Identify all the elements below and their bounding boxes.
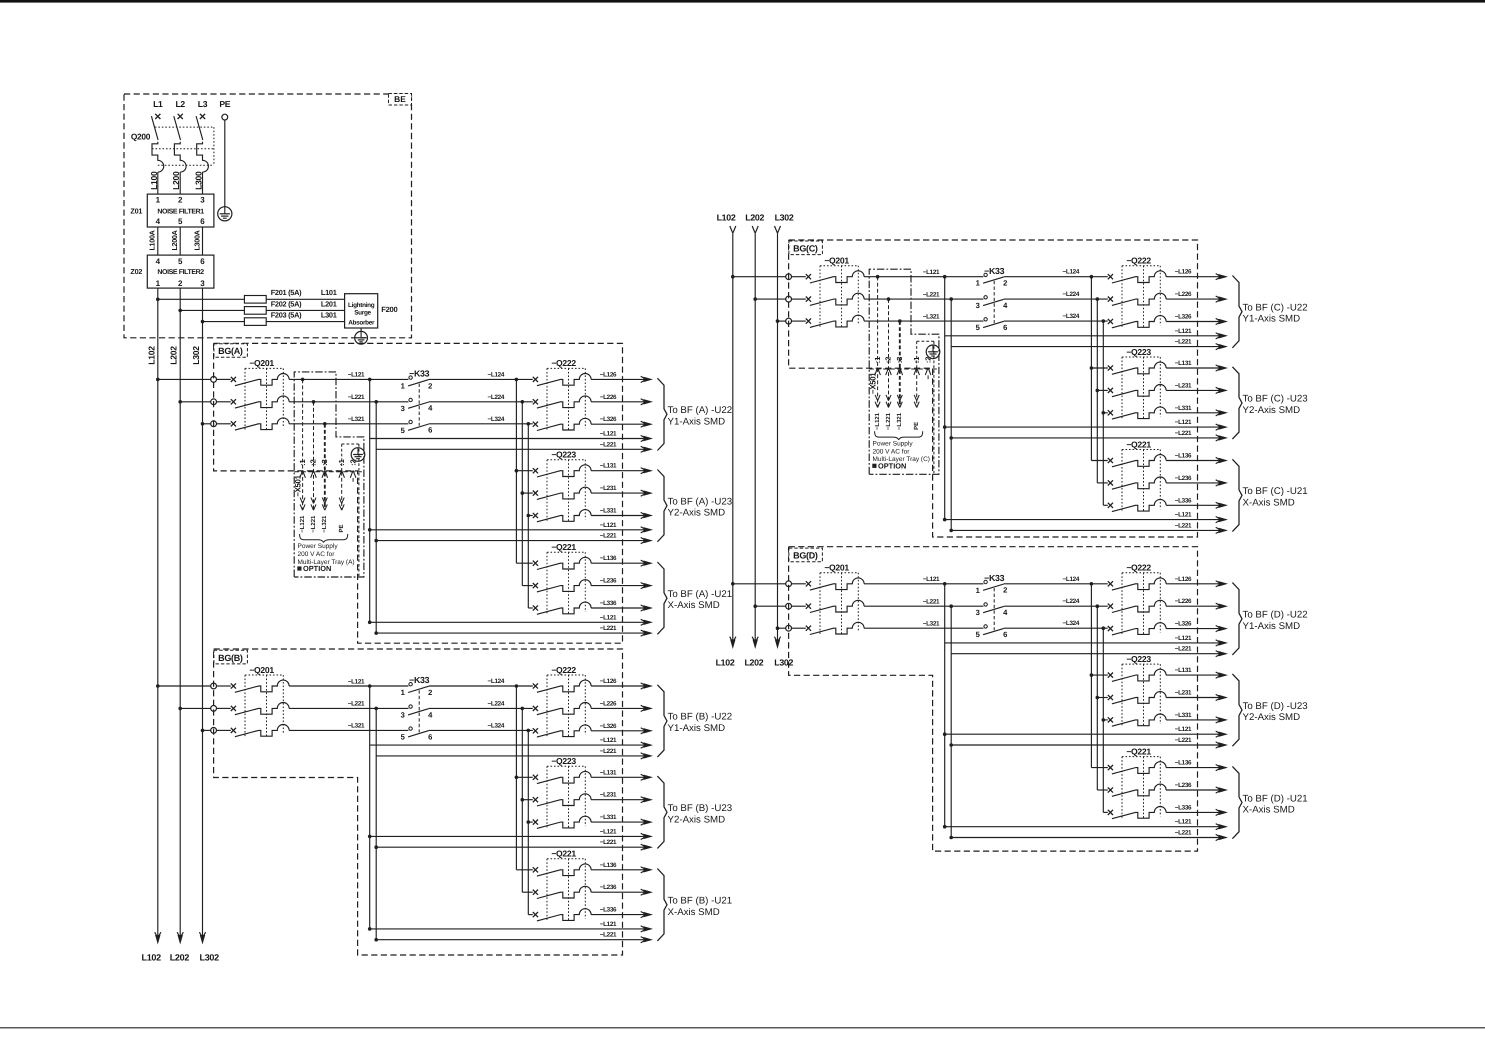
wire −L224	[429, 700, 533, 708]
breaker Q201 BG(A)	[231, 358, 289, 431]
wire	[791, 320, 806, 322]
wire F200 to ground	[360, 328, 362, 331]
svg-text:−L224: −L224	[1063, 598, 1080, 605]
svg-text:Surge: Surge	[354, 309, 371, 316]
svg-text:−L321: −L321	[923, 313, 940, 320]
contactor K33	[401, 369, 433, 435]
power supply option box A	[294, 372, 364, 577]
svg-text:−L136: −L136	[600, 862, 617, 869]
svg-text:Y1-Axis SMD: Y1-Axis SMD	[668, 723, 726, 734]
svg-text:X-Axis SMD: X-Axis SMD	[1243, 498, 1295, 509]
wire −L226	[591, 394, 653, 405]
svg-text:−L126: −L126	[1175, 576, 1192, 583]
noise filter Z01	[130, 194, 213, 227]
svg-text:−L121: −L121	[874, 412, 881, 430]
breaker Q221 BG(D)	[1108, 746, 1166, 819]
svg-text:X-Axis SMD: X-Axis SMD	[668, 907, 720, 918]
wire bus L302 left	[202, 288, 204, 935]
wire −L131	[591, 769, 653, 780]
svg-text:L201: L201	[321, 299, 337, 308]
svg-text::2: :2	[348, 459, 357, 466]
ground option A	[351, 448, 365, 462]
brace output group U22	[657, 378, 667, 450]
wire to fuse F202	[180, 309, 244, 311]
svg-text:To BF (A) -U23: To BF (A) -U23	[668, 496, 733, 507]
svg-text:−Q221: −Q221	[1126, 746, 1151, 756]
terminal input 1	[211, 683, 217, 689]
svg-text:L2: L2	[175, 99, 185, 109]
wire −L124	[1004, 269, 1108, 277]
svg-text:L102: L102	[716, 657, 735, 667]
wire -L121 output	[943, 726, 1228, 737]
wire L301	[266, 321, 344, 323]
wire −L131	[591, 463, 653, 474]
wire L100A	[157, 227, 159, 255]
svg-text:−L236: −L236	[1175, 475, 1192, 482]
svg-text:L300: L300	[194, 171, 204, 190]
svg-text:−L226: −L226	[600, 700, 617, 707]
svg-text:PE: PE	[338, 524, 345, 532]
wire feeder phase 2 to Q223/Q221	[1096, 604, 1108, 790]
brace output group U23	[1232, 674, 1242, 746]
breaker Q222 BG(A)	[533, 358, 591, 431]
svg-text:−L121: −L121	[600, 431, 617, 438]
wire	[216, 423, 231, 425]
wire	[216, 729, 231, 731]
wire bus input phase 3	[201, 422, 211, 426]
breaker Q223 BG(C)	[1108, 347, 1166, 420]
svg-text:F202 (5A): F202 (5A)	[271, 299, 302, 308]
wire −L131	[1166, 360, 1228, 371]
svg-text:−L124: −L124	[488, 371, 505, 378]
svg-text:1: 1	[156, 195, 161, 204]
svg-text:−X501: −X501	[294, 474, 303, 496]
svg-text:BG(C): BG(C)	[793, 244, 818, 254]
wire −L221	[864, 291, 983, 299]
svg-text:−L121: −L121	[1175, 328, 1192, 335]
wire	[216, 378, 231, 380]
wire bus input phase 1	[731, 275, 786, 279]
wire -L121 output	[368, 522, 653, 533]
wire tap -L321 to X501:3	[896, 319, 903, 430]
svg-text:−L326: −L326	[1175, 621, 1192, 628]
wire -L121 bypass	[943, 275, 947, 520]
wire −L331	[591, 508, 653, 519]
svg-text:Y2-Axis SMD: Y2-Axis SMD	[1243, 712, 1301, 723]
svg-text:−L221: −L221	[923, 291, 940, 298]
svg-text:−Q223: −Q223	[1126, 654, 1151, 664]
svg-text:−L321: −L321	[923, 621, 940, 628]
terminal input 1	[211, 377, 217, 383]
svg-text:−L236: −L236	[1175, 782, 1192, 789]
svg-text:−L221: −L221	[600, 533, 617, 540]
svg-text:−Q201: −Q201	[249, 358, 274, 368]
breaker Q223 BG(B)	[533, 756, 591, 829]
wire −L224	[429, 394, 533, 402]
wire -L221 output	[374, 625, 653, 636]
svg-text:−L336: −L336	[1175, 497, 1192, 504]
brace output group U21	[657, 869, 667, 941]
svg-text:To BF (A) -U21: To BF (A) -U21	[668, 589, 733, 600]
wire −L236	[1166, 782, 1228, 793]
wire −L136	[1166, 760, 1228, 771]
svg-text:−Q201: −Q201	[824, 563, 849, 573]
svg-text:−L221: −L221	[1175, 830, 1192, 837]
svg-text:−L121: −L121	[1175, 635, 1192, 642]
svg-text:2: 2	[428, 688, 432, 697]
wire -L121 output	[368, 921, 653, 932]
svg-text:−L121: −L121	[1175, 726, 1192, 733]
wire −L221	[289, 394, 408, 402]
svg-text:3: 3	[200, 195, 205, 204]
wire −L121	[289, 372, 408, 380]
wire bus right L202	[754, 233, 756, 640]
svg-text:L301: L301	[321, 311, 337, 320]
wire	[791, 605, 806, 607]
label To BF (B) U22	[668, 712, 733, 734]
label To BF (A) U21	[668, 589, 733, 611]
wire tap -L121 to X501:1	[874, 275, 881, 430]
svg-text:−L121: −L121	[1175, 419, 1192, 426]
label To BF (D) U21	[1243, 793, 1308, 815]
svg-text:L102: L102	[717, 212, 736, 222]
svg-text:−L136: −L136	[1175, 453, 1192, 460]
wire tap -L221 to X501:2	[310, 400, 317, 533]
wire -L121 output	[945, 328, 1228, 339]
label To BF (C) U22	[1243, 302, 1308, 324]
wire tap -L121 to X501:1	[299, 378, 306, 533]
wire bus right L302	[777, 233, 779, 640]
wire bus input phase 1	[731, 582, 786, 586]
svg-text:−L136: −L136	[600, 555, 617, 562]
svg-text:L102: L102	[142, 952, 162, 962]
svg-text:Lightning: Lightning	[348, 302, 375, 309]
arrow bus L202 bottom	[178, 935, 183, 945]
svg-text:−L121: −L121	[600, 522, 617, 529]
svg-text:To BF (D) -U23: To BF (D) -U23	[1243, 701, 1308, 712]
wire -L121 output	[368, 614, 653, 625]
svg-text:−L131: −L131	[1175, 360, 1192, 367]
connector X501	[294, 459, 364, 496]
svg-text:To BF (C) -U23: To BF (C) -U23	[1243, 394, 1308, 405]
svg-text:Absorber: Absorber	[348, 320, 375, 327]
wire −L226	[1166, 291, 1228, 302]
breaker Q223 BG(A)	[533, 450, 591, 523]
svg-text:3: 3	[401, 404, 405, 413]
terminal input 3	[786, 625, 792, 631]
svg-text:−L121: −L121	[348, 678, 365, 685]
wire feeder phase 1 to Q223/Q221	[515, 684, 533, 870]
svg-text:2: 2	[428, 381, 432, 390]
svg-text:L100: L100	[149, 171, 159, 190]
svg-text:L302: L302	[774, 657, 793, 667]
svg-text:Q200: Q200	[131, 131, 151, 141]
svg-text:Y1-Axis SMD: Y1-Axis SMD	[1243, 314, 1301, 325]
svg-text:−Q222: −Q222	[1126, 563, 1151, 573]
svg-text:L302: L302	[191, 346, 201, 365]
svg-text:L202: L202	[170, 952, 190, 962]
svg-text:−L121: −L121	[1175, 512, 1192, 519]
wire −L321	[864, 313, 983, 321]
wire -L221 output	[376, 748, 653, 759]
terminal input 3	[211, 421, 217, 427]
contactor K33	[976, 266, 1008, 332]
wire −L321	[289, 416, 408, 424]
svg-text:To BF (C) -U21: To BF (C) -U21	[1243, 486, 1308, 497]
svg-text:−L326: −L326	[1175, 314, 1192, 321]
svg-text:2: 2	[178, 279, 183, 288]
svg-text:BG(D): BG(D)	[793, 551, 818, 561]
svg-text:−L121: −L121	[600, 828, 617, 835]
breaker Q222 BG(D)	[1108, 563, 1166, 636]
svg-text:F200: F200	[381, 305, 397, 314]
brace output group U23	[657, 776, 667, 848]
svg-text:−L221: −L221	[600, 625, 617, 632]
svg-text:−L236: −L236	[600, 578, 617, 585]
svg-text:−L121: −L121	[600, 737, 617, 744]
wire bus input phase 2	[753, 604, 785, 608]
svg-text:Y1-Axis SMD: Y1-Axis SMD	[668, 416, 726, 427]
svg-text:−L121: −L121	[299, 515, 306, 533]
svg-text:To BF (D) -U21: To BF (D) -U21	[1243, 793, 1308, 804]
label To BF (D) U22	[1243, 610, 1308, 632]
breaker Q200	[131, 114, 214, 194]
wire	[791, 627, 806, 629]
brace output group U22	[1232, 583, 1242, 655]
svg-text:−Q223: −Q223	[551, 450, 576, 460]
contactor K33	[401, 675, 433, 741]
svg-text:NOISE FILTER1: NOISE FILTER1	[157, 208, 204, 215]
wire -L221 bypass	[949, 297, 953, 530]
svg-text:−L321: −L321	[321, 515, 328, 533]
brace output group U22	[1232, 276, 1242, 348]
svg-text:6: 6	[200, 217, 205, 226]
wire −L326	[591, 416, 653, 427]
svg-text:X-Axis SMD: X-Axis SMD	[1243, 805, 1295, 816]
svg-text:−Q221: −Q221	[551, 849, 576, 859]
svg-text:−L324: −L324	[1063, 620, 1080, 627]
wire -L221 output	[376, 441, 653, 452]
breaker Q201 BG(B)	[231, 665, 289, 738]
wire L200A	[179, 227, 181, 255]
svg-text:4: 4	[156, 217, 161, 226]
breaker Q201 BG(D)	[806, 563, 864, 636]
wire −L231	[591, 792, 653, 803]
wire −L326	[591, 723, 653, 734]
label To BF (C) U23	[1243, 394, 1308, 416]
wire −L331	[1166, 405, 1228, 416]
svg-text:−L324: −L324	[488, 416, 505, 423]
wire −L126	[1166, 269, 1228, 280]
terminal input 2	[211, 706, 217, 712]
svg-text:Power Supply: Power Supply	[298, 543, 339, 550]
svg-text:−L324: −L324	[1063, 313, 1080, 320]
svg-text:−L324: −L324	[488, 722, 505, 729]
surge absorber F200	[345, 294, 398, 328]
svg-text:NOISE FILTER2: NOISE FILTER2	[157, 269, 204, 276]
wire tap PE to X501	[338, 444, 359, 576]
ground PE	[218, 207, 232, 221]
wire −L324	[429, 722, 533, 730]
svg-text:−L331: −L331	[600, 508, 617, 515]
svg-text:−L221: −L221	[348, 394, 365, 401]
wire −L236	[1166, 475, 1228, 486]
svg-text:L100A: L100A	[148, 230, 157, 250]
svg-text:5: 5	[178, 257, 183, 266]
svg-text:L200A: L200A	[170, 230, 179, 250]
wire -L221 bypass	[949, 604, 953, 837]
wire	[791, 583, 806, 585]
wire −L336	[1166, 497, 1228, 508]
arrow bus right L302 top	[775, 226, 778, 233]
svg-text:−L121: −L121	[923, 576, 940, 583]
svg-text:L3: L3	[198, 99, 208, 109]
label To BF (B) U23	[668, 803, 733, 825]
svg-text:To BF (D) -U22: To BF (D) -U22	[1243, 610, 1308, 621]
svg-text:−L221: −L221	[310, 515, 317, 533]
terminal input 1	[786, 581, 792, 587]
svg-text:2: 2	[1003, 586, 1007, 595]
svg-text:200 V AC for: 200 V AC for	[298, 551, 336, 558]
svg-text:3: 3	[200, 279, 205, 288]
svg-text:−L221: −L221	[1175, 646, 1192, 653]
wire bus L202 left	[179, 288, 181, 935]
wire -L221 output	[949, 830, 1228, 841]
svg-text:−L221: −L221	[885, 412, 892, 430]
wire	[216, 707, 231, 709]
svg-text:−L121: −L121	[1175, 819, 1192, 826]
svg-text:−L226: −L226	[1175, 291, 1192, 298]
wire −L126	[591, 371, 653, 382]
wire bus input phase 3	[776, 319, 786, 323]
wire feeder phase 3 to Q223/Q221	[527, 729, 533, 915]
terminal input 3	[786, 318, 792, 324]
brace output group U22	[657, 685, 667, 757]
svg-text:−L231: −L231	[1175, 690, 1192, 697]
enclosure BG(D)	[789, 547, 1198, 851]
svg-text:−L331: −L331	[600, 814, 617, 821]
svg-text:−L124: −L124	[488, 678, 505, 685]
wire -L121 bypass	[368, 378, 372, 623]
wire −L136	[591, 862, 653, 873]
svg-text:BG(B): BG(B)	[218, 653, 243, 663]
svg-text:Power Supply: Power Supply	[873, 440, 914, 447]
svg-text:−L131: −L131	[600, 463, 617, 470]
wire feeder phase 1 to Q223/Q221	[515, 378, 533, 564]
wire −L231	[1166, 690, 1228, 701]
wire feeder phase 3 to Q223/Q221	[1102, 626, 1108, 812]
wire -L221 bypass	[374, 707, 378, 940]
wire tap PE to X501	[913, 341, 934, 473]
svg-text:−L221: −L221	[600, 839, 617, 846]
wire bus L102 left	[157, 288, 159, 935]
svg-text:−L321: −L321	[896, 412, 903, 430]
svg-text:−L126: −L126	[600, 371, 617, 378]
svg-text:Y2-Axis SMD: Y2-Axis SMD	[668, 814, 726, 825]
svg-text:−L331: −L331	[1175, 405, 1192, 412]
wire −L324	[1004, 620, 1108, 628]
wire L201	[266, 309, 344, 311]
wire −L321	[289, 723, 408, 731]
svg-text:−L224: −L224	[488, 700, 505, 707]
wire bus input phase 2	[178, 400, 210, 404]
svg-text:−L331: −L331	[1175, 712, 1192, 719]
wire feeder phase 2 to Q223/Q221	[521, 400, 533, 586]
wire -L121 output	[370, 737, 653, 748]
svg-text:−L126: −L126	[600, 678, 617, 685]
svg-text:−L221: −L221	[923, 599, 940, 606]
arrow bus right L202 top	[752, 226, 755, 233]
svg-text:L302: L302	[775, 212, 794, 222]
wire -L121 output	[943, 819, 1228, 830]
svg-text:−L226: −L226	[600, 394, 617, 401]
fuse F203	[244, 318, 266, 326]
wire -L121 output	[943, 512, 1228, 523]
wire −L331	[1166, 712, 1228, 723]
breaker Q201 BG(C)	[806, 256, 864, 329]
wire bus input phase 3	[776, 626, 786, 630]
brace output group U23	[1232, 367, 1242, 439]
svg-text:X-Axis SMD: X-Axis SMD	[668, 600, 720, 611]
wire feeder phase 3 to Q223/Q221	[527, 422, 533, 608]
svg-text:6: 6	[428, 732, 432, 741]
svg-text:−L321: −L321	[348, 416, 365, 423]
brace output group U21	[1232, 459, 1242, 531]
wire -L221 output	[374, 533, 653, 544]
svg-text:−L131: −L131	[1175, 667, 1192, 674]
wire −L326	[1166, 621, 1228, 632]
svg-text:−L226: −L226	[1175, 598, 1192, 605]
enclosure BG(A)	[214, 343, 623, 643]
wire −L121	[864, 269, 983, 277]
brace output group U23	[657, 470, 667, 542]
svg-text:−L124: −L124	[1063, 269, 1080, 276]
wire feeder phase 2 to Q223/Q221	[521, 707, 533, 893]
arrow bus right L102 top	[730, 226, 733, 233]
wire -L221 output	[951, 339, 1228, 350]
svg-text:1: 1	[156, 279, 161, 288]
wire -L121 output	[943, 419, 1228, 430]
wire -L221 output	[949, 522, 1228, 533]
brace output group U21	[1232, 766, 1242, 838]
terminal input 2	[211, 399, 217, 405]
svg-text:−L126: −L126	[1175, 269, 1192, 276]
wire -L221 output	[949, 430, 1228, 441]
wire −L326	[1166, 314, 1228, 325]
label power supply option	[872, 431, 930, 470]
terminal input 2	[786, 296, 792, 302]
wire tap -L221 to X501:2	[885, 297, 892, 430]
svg-text:Y2-Axis SMD: Y2-Axis SMD	[668, 508, 726, 519]
svg-text:To BF (B) -U22: To BF (B) -U22	[668, 712, 733, 723]
svg-text:−Q222: −Q222	[551, 358, 576, 368]
wire −L236	[591, 578, 653, 589]
wire bus input phase 1	[156, 684, 211, 688]
svg-text:5: 5	[178, 217, 183, 226]
svg-text:Z01: Z01	[130, 207, 142, 216]
wire -L121 bypass	[368, 684, 372, 929]
svg-text:−L236: −L236	[600, 884, 617, 891]
wire -L221 output	[374, 932, 653, 943]
svg-text:200 V AC for: 200 V AC for	[873, 448, 911, 455]
svg-text:L300A: L300A	[192, 230, 201, 250]
svg-text:L202: L202	[744, 657, 763, 667]
wire −L324	[429, 416, 533, 424]
svg-text:−L336: −L336	[600, 600, 617, 607]
enclosure BE	[124, 94, 412, 338]
svg-text:−L221: −L221	[1175, 522, 1192, 529]
svg-text:To BF (A) -U22: To BF (A) -U22	[668, 405, 733, 416]
